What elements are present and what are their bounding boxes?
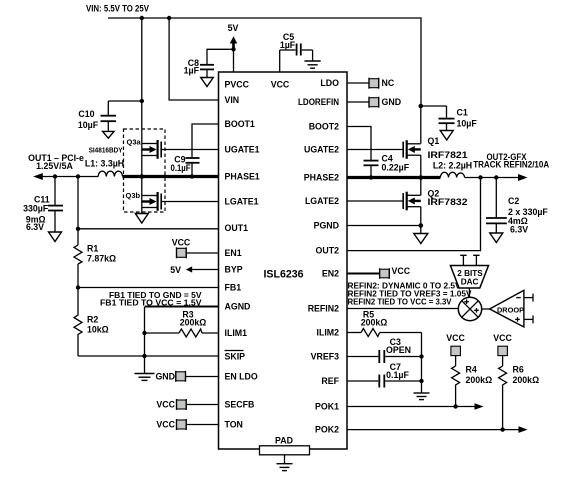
- wire PGND: [347, 225, 421, 227]
- svg-text:200kΩ: 200kΩ: [513, 375, 540, 385]
- pin OUT1 label: [225, 223, 249, 233]
- capacitor C5: [280, 32, 313, 56]
- wire POK1: [347, 406, 476, 408]
- transistor Q3b: [126, 177, 162, 214]
- wire VIN branch to Q3a drain: [141, 18, 143, 101]
- wire AGND: [145, 307, 219, 334]
- wire PHASE2 thick: [347, 176, 440, 179]
- pin PHASE1 label: [225, 172, 260, 182]
- svg-text:TON: TON: [225, 420, 243, 430]
- transistor Q2: [403, 178, 467, 234]
- pin EN LDO label: [225, 372, 258, 382]
- svg-text:7.87kΩ: 7.87kΩ: [87, 253, 116, 263]
- wire PHASE1 thick: [123, 175, 219, 178]
- DAC input stubs: [460, 255, 479, 265]
- node POK1/R4 junction: [453, 404, 457, 408]
- pin PHASE2 label: [304, 173, 339, 183]
- capacitor C10: [78, 109, 116, 131]
- pin LGATE2 label: [305, 196, 339, 206]
- node C11 junction: [53, 174, 57, 178]
- pin LDO label: [320, 78, 339, 88]
- node C7 junction: [419, 379, 423, 383]
- wire VCC pin: [279, 50, 281, 72]
- svg-text:GND: GND: [155, 372, 175, 382]
- pin AGND label: [225, 302, 251, 312]
- terminal VCC box R6: [493, 333, 512, 366]
- ground below PAD: [277, 455, 293, 471]
- pin SKIP label with overline: [225, 351, 246, 362]
- node SKIP junction: [142, 354, 146, 358]
- svg-text:LDO: LDO: [320, 78, 339, 88]
- pin UGATE1 label: [225, 145, 260, 155]
- ground for REF filter: [414, 393, 430, 400]
- svg-text:LGATE1: LGATE1: [225, 197, 259, 207]
- capacitor C4: [364, 153, 410, 177]
- svg-text:REF: REF: [321, 376, 339, 386]
- node C2 junction: [494, 175, 498, 179]
- wire LGATE1: [161, 201, 218, 203]
- pin BYP label: [225, 265, 243, 275]
- ground below Q2: [414, 234, 428, 244]
- terminal VCC box R4: [446, 333, 465, 366]
- label OUT1 output: [28, 153, 84, 171]
- svg-text:BOOT2: BOOT2: [309, 122, 339, 132]
- svg-text:POK1: POK1: [315, 402, 339, 412]
- svg-text:EN2: EN2: [322, 269, 339, 279]
- node VIN label: [86, 3, 149, 13]
- pin EN1 label: [225, 248, 242, 258]
- capacitor C8: [184, 58, 214, 78]
- svg-text:PVCC: PVCC: [225, 79, 250, 89]
- pin VIN label: [225, 95, 240, 105]
- ground below C1: [440, 131, 453, 141]
- node VIN/C1 junction: [419, 104, 424, 109]
- wire VIN to Q1 drain: [420, 106, 422, 144]
- resistor R4: [452, 365, 493, 407]
- pin BOOT1 label: [225, 119, 255, 129]
- pin UGATE2 label: [304, 145, 339, 155]
- svg-text:6.3V: 6.3V: [510, 224, 528, 234]
- pin VREF3 label: [311, 352, 339, 362]
- svg-text:VCC: VCC: [156, 400, 175, 410]
- svg-text:6.3V: 6.3V: [26, 222, 44, 232]
- svg-text:VCC: VCC: [446, 333, 465, 343]
- mixer summing circle: [458, 297, 481, 320]
- svg-text:330µF: 330µF: [23, 203, 49, 213]
- pin EN2 label: [322, 269, 339, 279]
- op-amp/IC U1 ISL6236 body: [219, 72, 348, 449]
- ground below C8: [201, 78, 214, 87]
- svg-text:R4: R4: [466, 365, 477, 375]
- ground signal GND left: [135, 374, 155, 381]
- pin PAD label and pad box: [260, 436, 310, 455]
- label OUT2 output: [473, 152, 550, 170]
- op-amp DROOP: [490, 290, 525, 327]
- resistor R6: [499, 365, 540, 430]
- svg-text:PGND: PGND: [314, 221, 339, 231]
- svg-text:1µF: 1µF: [184, 65, 200, 75]
- svg-text:TRACK REFIN2/10A: TRACK REFIN2/10A: [473, 159, 550, 169]
- svg-text:VREF3: VREF3: [311, 352, 339, 362]
- wire FB1: [78, 287, 219, 289]
- pin PGND label: [314, 221, 339, 231]
- wire REFIN2: [347, 308, 458, 310]
- svg-text:R2: R2: [87, 314, 98, 324]
- node POK2/R6 junction: [500, 427, 504, 431]
- svg-text:200kΩ: 200kΩ: [180, 318, 207, 328]
- wire to C8: [207, 49, 234, 64]
- svg-text:ISL6236: ISL6236: [263, 269, 303, 281]
- transistor Q3a: [127, 138, 162, 159]
- svg-text:1.25V/5A: 1.25V/5A: [36, 161, 73, 171]
- svg-text:BYP: BYP: [225, 265, 243, 275]
- node OUT2 sense junction: [478, 175, 482, 179]
- pin POK1 label: [315, 402, 339, 412]
- pin BOOT2 label: [309, 122, 339, 132]
- node Q3 PHASE1 junction: [140, 174, 145, 179]
- svg-text:VIN: 5.5V TO 25V: VIN: 5.5V TO 25V: [86, 3, 149, 13]
- pin VCC label: [271, 79, 290, 89]
- node C9/PHASE1 junction: [190, 174, 194, 178]
- svg-text:200kΩ: 200kΩ: [466, 375, 493, 385]
- label 5V node: [228, 23, 239, 33]
- resistor R1: [74, 177, 116, 265]
- svg-text:OPEN: OPEN: [386, 345, 411, 355]
- wire to GND symbol: [144, 333, 146, 374]
- svg-text:0.1µF: 0.1µF: [171, 163, 192, 173]
- terminal NC box LDO: [347, 78, 395, 89]
- pin POK2 label: [315, 425, 339, 435]
- svg-text:REFIN2: REFIN2: [308, 304, 339, 314]
- terminal VCC box SECFB: [156, 399, 218, 410]
- svg-text:PAD: PAD: [275, 436, 293, 446]
- svg-text:0.1µF: 0.1µF: [386, 370, 409, 380]
- ground below C2: [490, 233, 503, 243]
- junction on VIN rail at x=169: [167, 16, 171, 20]
- svg-text:GND: GND: [382, 97, 402, 107]
- svg-text:EN1: EN1: [225, 248, 242, 258]
- wire OUT1 pin: [78, 228, 219, 230]
- wire LGATE2: [347, 200, 403, 202]
- arrow 5V up: [230, 36, 237, 49]
- capacitor C2: [486, 178, 548, 235]
- wire BOOT2 to C4: [347, 127, 371, 161]
- svg-text:OUT1: OUT1: [225, 223, 249, 233]
- ground below Q3b: [135, 214, 148, 224]
- capacitor C7: [347, 362, 422, 388]
- pin PVCC label: [225, 79, 250, 89]
- ground below C11: [49, 232, 62, 242]
- arrow OUT1 left: [33, 173, 43, 180]
- resistor R3: [145, 309, 219, 337]
- transistor Q1: [403, 136, 467, 177]
- svg-text:C10: C10: [78, 109, 94, 119]
- node C4/PHASE2 junction: [369, 175, 373, 179]
- svg-text:Q3b: Q3b: [126, 191, 141, 200]
- pin LGATE1 label: [225, 197, 259, 207]
- svg-text:0.22µF: 0.22µF: [382, 163, 410, 173]
- node PGND junction: [419, 223, 424, 228]
- wire VIN rail: [108, 18, 421, 106]
- svg-text:LGATE2: LGATE2: [305, 196, 339, 206]
- transistor pair dashed box SI4816BDY: [89, 129, 165, 212]
- svg-text:10kΩ: 10kΩ: [87, 325, 109, 335]
- wire DAC to mixer: [468, 288, 470, 297]
- terminal VCC box EN2: [347, 266, 411, 279]
- terminal GND box EN LDO: [155, 371, 218, 382]
- label REFIN2 notes: [348, 280, 472, 306]
- svg-text:DROOP: DROOP: [497, 305, 524, 314]
- node R1 junction: [76, 174, 80, 178]
- ground for C5: [305, 50, 321, 68]
- svg-text:ILIM2: ILIM2: [317, 328, 340, 338]
- svg-text:ILIM1: ILIM1: [225, 328, 248, 338]
- terminal VCC box TON: [156, 419, 218, 430]
- wire Q3a drain from VIN: [141, 101, 143, 177]
- node R3 junction: [142, 331, 146, 335]
- svg-text:Q1: Q1: [428, 136, 440, 146]
- node Q1/Q2 PHASE2 junction: [419, 175, 424, 180]
- pin ILIM2 label: [317, 328, 340, 338]
- svg-text:VCC: VCC: [172, 238, 191, 248]
- wire PVCC pin: [233, 49, 235, 72]
- resistor R2: [74, 288, 109, 357]
- svg-text:10µF: 10µF: [457, 118, 478, 128]
- svg-text:IRF7821: IRF7821: [428, 150, 468, 160]
- svg-text:5V: 5V: [228, 23, 239, 33]
- inductor L1: [85, 158, 124, 176]
- label FB1 notes: [100, 290, 202, 308]
- DAC 2-bits trapezoid: [450, 266, 488, 289]
- svg-text:R1: R1: [87, 244, 98, 254]
- svg-text:Q3a: Q3a: [127, 138, 142, 147]
- svg-text:OUT2: OUT2: [316, 246, 340, 256]
- svg-text:BOOT1: BOOT1: [225, 119, 255, 129]
- pin LDOREFIN label: [298, 97, 339, 107]
- wire VIN pin: [169, 18, 218, 100]
- svg-text:C1: C1: [457, 108, 468, 118]
- ground below C10: [103, 131, 114, 138]
- svg-text:L1: 3.3µH: L1: 3.3µH: [85, 158, 124, 168]
- wire OUT2 output: [465, 177, 520, 179]
- wire ILIM2 branch down: [421, 333, 423, 394]
- capacitor C3: [347, 337, 422, 363]
- svg-text:200kΩ: 200kΩ: [361, 318, 388, 328]
- svg-text:VCC: VCC: [156, 420, 175, 430]
- resistor R5: [347, 309, 422, 336]
- svg-text:SI4816BDY: SI4816BDY: [89, 146, 123, 155]
- svg-text:FB1: FB1: [225, 283, 242, 293]
- svg-text:SECFB: SECFB: [225, 400, 255, 410]
- droop input stubs: [524, 294, 533, 324]
- pin FB1 label: [225, 283, 242, 293]
- pin REF label: [321, 376, 339, 386]
- capacitor C9: [171, 155, 200, 177]
- svg-text:PHASE1: PHASE1: [225, 172, 260, 182]
- svg-text:UGATE2: UGATE2: [304, 145, 339, 155]
- wire mixer to droop amp: [482, 308, 490, 310]
- svg-text:SKIP: SKIP: [225, 352, 246, 362]
- svg-text:1µF: 1µF: [280, 40, 296, 50]
- svg-text:10µF: 10µF: [78, 120, 99, 130]
- svg-text:LDOREFIN: LDOREFIN: [298, 97, 339, 107]
- wire BOOT1: [192, 124, 219, 157]
- node FB1 junction: [76, 285, 80, 289]
- svg-text:REFIN2 TIED TO VCC = 3.3V: REFIN2 TIED TO VCC = 3.3V: [348, 296, 452, 306]
- wire to C10: [108, 101, 142, 115]
- wire UGATE2: [347, 149, 403, 151]
- svg-text:AGND: AGND: [225, 302, 251, 312]
- svg-text:R6: R6: [513, 365, 524, 375]
- node junction 5V/PVCC: [231, 47, 235, 51]
- junction on VIN rail at x=142: [140, 16, 144, 20]
- svg-text:C2: C2: [508, 196, 519, 206]
- arrow POK1: [475, 403, 484, 410]
- svg-text:NC: NC: [382, 78, 395, 88]
- pin ILIM1 label: [225, 328, 248, 338]
- capacitor C11: [23, 177, 63, 233]
- wire OUT2 sense to OUT2 pin: [347, 178, 481, 251]
- svg-text:PHASE2: PHASE2: [304, 173, 339, 183]
- svg-text:DAC: DAC: [461, 277, 479, 286]
- svg-text:EN LDO: EN LDO: [225, 372, 258, 382]
- svg-text:5V: 5V: [170, 265, 181, 275]
- node OUT1/R1 junction: [76, 227, 80, 231]
- wire UGATE1: [161, 149, 218, 151]
- svg-text:VCC: VCC: [493, 333, 512, 343]
- pin TON label: [225, 420, 243, 430]
- inductor L2: [433, 160, 472, 177]
- pin REFIN2 label: [308, 304, 339, 314]
- svg-text:IRF7832: IRF7832: [428, 197, 468, 207]
- svg-text:UGATE1: UGATE1: [225, 145, 260, 155]
- pin OUT2 label: [316, 246, 340, 256]
- svg-text:VIN: VIN: [225, 95, 240, 105]
- svg-text:POK2: POK2: [315, 425, 339, 435]
- pin SECFB label: [225, 400, 255, 410]
- arrow BYP 5V: [170, 265, 218, 275]
- wire R1 to FB1 junction: [77, 264, 79, 288]
- svg-text:L2: 2.2µH: L2: 2.2µH: [433, 160, 472, 170]
- svg-text:VCC: VCC: [392, 266, 411, 276]
- wire SKIP: [78, 355, 219, 357]
- terminal VCC box EN1: [172, 238, 219, 259]
- arrow OUT2 right: [518, 174, 528, 181]
- svg-text:VCC: VCC: [271, 79, 290, 89]
- terminal GND box LDOREFIN: [347, 97, 401, 108]
- arrow POK2: [519, 426, 528, 433]
- wire OUT1 left segment: [41, 176, 98, 178]
- capacitor C1: [421, 106, 478, 130]
- wire POK2: [347, 429, 520, 431]
- node C3 junction: [419, 354, 423, 358]
- node junction C10/VIN: [140, 99, 144, 103]
